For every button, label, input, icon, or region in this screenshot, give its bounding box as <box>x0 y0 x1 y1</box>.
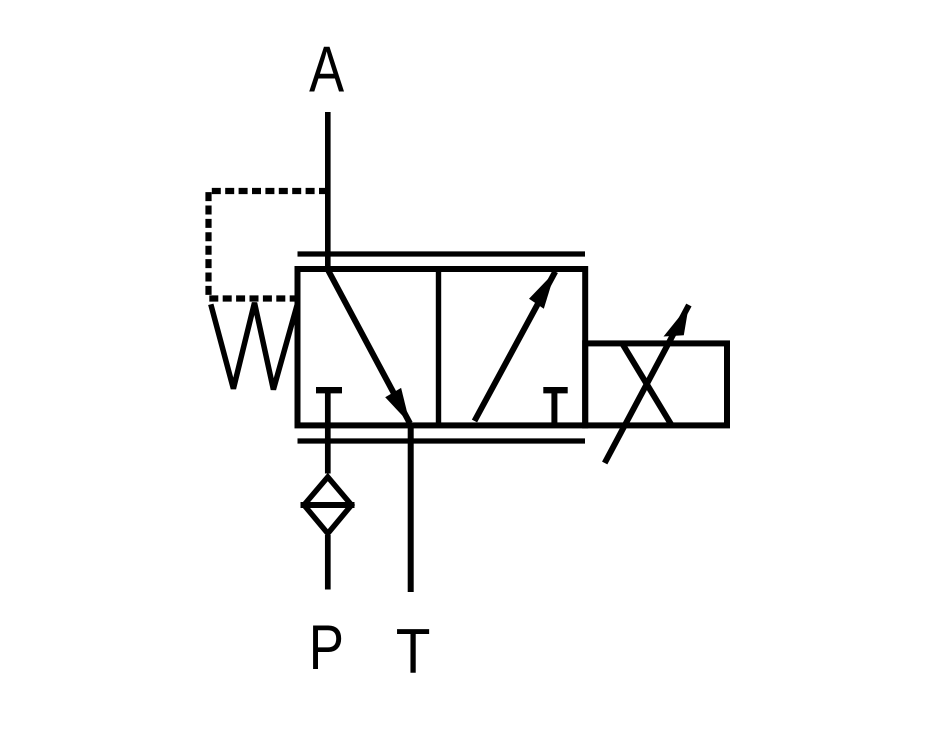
valve body envelope <box>298 269 586 425</box>
solenoid diagonal <box>623 344 672 426</box>
wire: port P lower line <box>325 535 331 590</box>
adjustment arrow head <box>664 305 689 337</box>
blocked port P bar <box>316 387 342 393</box>
flow arrow A-T shaft <box>328 270 410 423</box>
spring <box>211 303 298 390</box>
flow arrow P-A head <box>529 271 555 308</box>
proportional rail bottom <box>298 438 586 443</box>
flow arrow A-T head <box>385 388 410 424</box>
check valve seat line <box>301 502 355 508</box>
proportional rail top <box>298 251 586 256</box>
adjustment arrow shaft <box>605 305 689 463</box>
svg-text:T: T <box>396 617 431 687</box>
flow arrow P-A shaft <box>475 272 556 421</box>
svg-text:A: A <box>309 33 345 106</box>
blocked port T stem <box>551 390 557 425</box>
pilot line (dashed) <box>209 191 329 299</box>
wire: port T line <box>408 424 414 593</box>
wire: port P stem <box>325 390 331 474</box>
position divider <box>436 269 441 425</box>
solenoid box <box>585 343 727 425</box>
check valve body <box>304 477 352 534</box>
svg-text:P: P <box>309 613 344 683</box>
blocked port T bar <box>543 387 567 393</box>
wire: port A line <box>325 112 331 272</box>
